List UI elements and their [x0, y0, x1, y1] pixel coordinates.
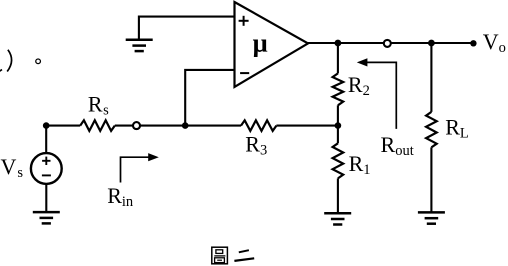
resistor R2 [333, 73, 344, 105]
ideographic full stop mark [36, 59, 41, 64]
resistor RL [426, 112, 437, 147]
terminal: Vo end dot [470, 40, 476, 46]
caption: figure title "圖二" (Figure 2), drawn strokes [212, 247, 254, 264]
resistor R3 [241, 120, 276, 131]
wire: input circle to inverting node [140, 125, 185, 127]
wire: node to Vs top [45, 126, 47, 154]
label R2 [348, 72, 370, 99]
wire: node to R3 [185, 125, 241, 127]
op-amp U1 (gain mu) [235, 2, 309, 87]
arrow: Rout looking-back arrow [357, 58, 397, 129]
svg-text:Vs: Vs [1, 154, 24, 181]
svg-text:μ: μ [253, 28, 268, 58]
resistor R1 [333, 143, 344, 178]
svg-text:R3: R3 [245, 131, 267, 158]
wire: load node to RL [430, 43, 432, 112]
leftover closing parenthesis glyph (top-left, clipped) [0, 50, 12, 72]
wire: inverting input to input node [185, 70, 234, 126]
wire: RL to ground [430, 147, 432, 212]
ground (op-amp + input) [126, 40, 153, 51]
wire: op-amp output [308, 42, 474, 44]
wire: R3 to feedback node [276, 125, 338, 127]
resistor Rs [80, 120, 115, 131]
wire: feedback node to R1 [337, 126, 339, 144]
label RL [445, 114, 469, 141]
ground (below R1) [324, 213, 351, 224]
junction: load node dot (RL top) [428, 40, 435, 47]
wire: node to Rs [46, 125, 80, 127]
voltage source Vs [31, 153, 62, 184]
svg-text:Vo: Vo [483, 29, 506, 56]
svg-text:Rin: Rin [107, 183, 134, 210]
node: source top node (junction dot) [43, 122, 50, 129]
wire: Vs bottom to ground [45, 184, 47, 212]
wire: output node to R2 [337, 43, 339, 73]
svg-text:Rout: Rout [381, 132, 414, 159]
label R3 [245, 131, 267, 158]
svg-text:R1: R1 [349, 151, 371, 178]
wire: op-amp + input to ground [139, 17, 235, 40]
wire: R2 to feedback node [337, 105, 339, 125]
label Rin [107, 183, 134, 210]
ground (below Vs) [33, 212, 60, 223]
label Vs [1, 154, 24, 181]
junction: output node dot (R2 top) [335, 40, 342, 47]
terminal: open circle on output line [384, 40, 391, 47]
label Rs [88, 92, 109, 119]
label Vo [483, 29, 506, 56]
ground (below RL) [418, 212, 445, 223]
junction: inverting input node dot [182, 122, 189, 129]
wire: Rs to input terminal circle [115, 125, 133, 127]
terminal: open circle on input line [133, 122, 140, 129]
wire: R1 to ground [337, 178, 339, 213]
svg-text:RL: RL [445, 114, 469, 141]
arrow: Rin looking-in arrow [121, 153, 159, 182]
svg-text:Rs: Rs [88, 92, 109, 119]
label R1 [349, 151, 371, 178]
junction: feedback node dot [335, 122, 342, 129]
svg-text:R2: R2 [348, 72, 370, 99]
label Rout [381, 132, 414, 159]
